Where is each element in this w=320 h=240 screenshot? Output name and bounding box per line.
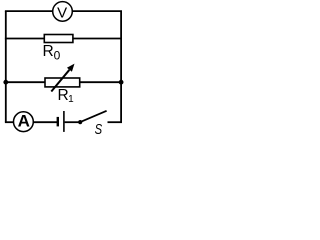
ammeter A1 circle: [14, 112, 34, 132]
rheostat R1 body: [45, 78, 80, 87]
wire R0 row left: [5, 38, 44, 40]
wire R1 row right: [80, 81, 122, 83]
wire R0 row right: [73, 38, 122, 40]
switch S pivot dot: [78, 120, 82, 124]
node right junction dot: [119, 80, 124, 85]
rheostat R1 arrow: [51, 64, 74, 92]
wire left vertical: [5, 11, 7, 122]
wire bottom left to ammeter: [5, 121, 14, 123]
svg-text:V: V: [57, 4, 67, 21]
resistor R0 body: [44, 35, 73, 43]
voltmeter V1 circle: [53, 2, 73, 22]
switch S blade: [80, 111, 106, 122]
svg-text:A: A: [18, 112, 30, 131]
wire ammeter to battery: [33, 121, 57, 123]
wire R1 row left: [5, 81, 45, 83]
wire voltmeter to top right: [72, 10, 122, 12]
wire switch contact to bottom right: [108, 121, 123, 123]
svg-text:0: 0: [54, 49, 61, 63]
svg-text:1: 1: [68, 94, 74, 105]
wire top left to voltmeter: [5, 10, 53, 12]
svg-text:R: R: [58, 87, 69, 104]
svg-text:R: R: [43, 43, 54, 60]
node left junction dot: [3, 80, 8, 85]
battery positive long plate: [63, 111, 65, 132]
battery negative short plate: [57, 117, 59, 127]
svg-text:S: S: [95, 120, 103, 137]
wire battery to switch pivot: [65, 121, 80, 123]
wire right vertical: [120, 11, 122, 122]
